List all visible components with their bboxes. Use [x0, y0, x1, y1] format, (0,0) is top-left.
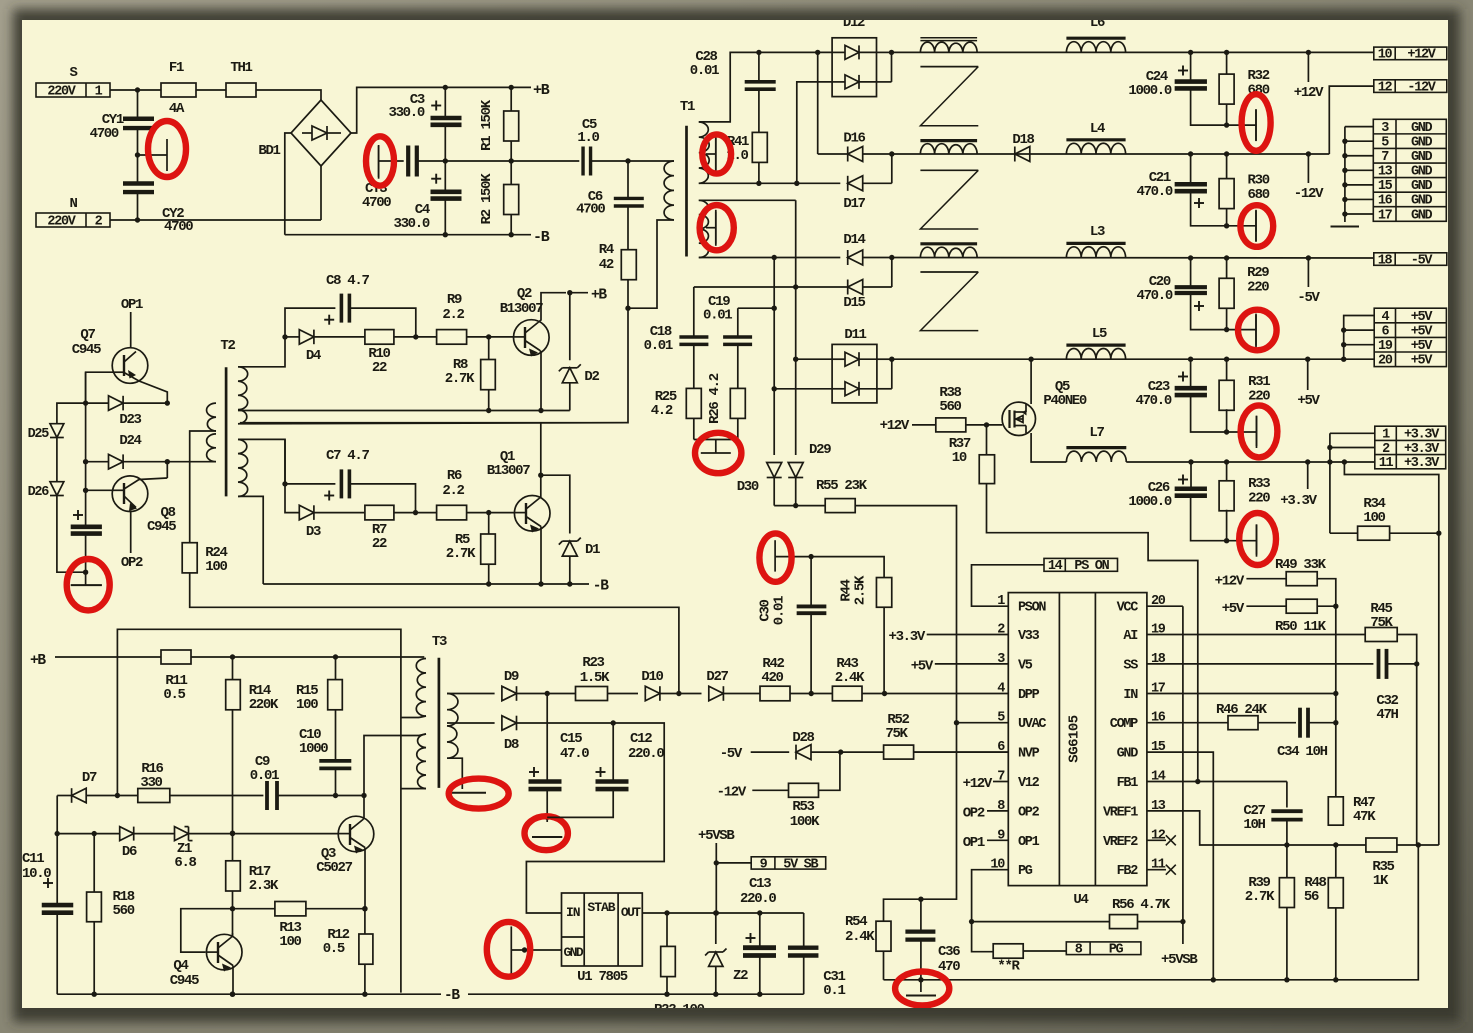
wire +3.3V bus [1330, 432, 1375, 434]
capacitor CY3 4700 [379, 160, 404, 162]
svg-text:100: 100 [205, 559, 227, 575]
svg-text:GND: GND [1411, 208, 1433, 223]
capacitor C34 10H [1298, 708, 1302, 738]
resistor R14 220K [232, 657, 234, 680]
svg-text:T3: T3 [432, 634, 447, 650]
svg-text:+5V: +5V [1297, 393, 1320, 409]
svg-text:1.5K: 1.5K [580, 670, 610, 686]
diode D15 [694, 286, 848, 288]
svg-text:0.1: 0.1 [823, 983, 845, 999]
diode D10 [645, 686, 660, 701]
inductor L4 [1066, 143, 1125, 154]
svg-text:D2: D2 [584, 369, 599, 385]
svg-text:OP1: OP1 [1018, 835, 1040, 850]
diode D7 [57, 795, 71, 797]
svg-text:C36: C36 [938, 944, 960, 960]
svg-text:VREF2: VREF2 [1103, 835, 1138, 850]
resistor R8 2.7K [488, 337, 490, 360]
ground at T1 sec2 tap [706, 227, 716, 229]
junction R49 R50 [1333, 604, 1338, 609]
wire GND pin15 down [1147, 752, 1213, 980]
wire +5VSB stub [715, 843, 717, 913]
svg-text:220.0: 220.0 [628, 746, 664, 762]
svg-text:D17: D17 [843, 196, 865, 212]
wire UVAC pin5 [957, 722, 1009, 724]
svg-text:47K: 47K [1353, 809, 1376, 825]
resistor R16 330 [117, 795, 137, 797]
wire -B rail at Q1 [263, 583, 589, 585]
svg-text:1000: 1000 [299, 741, 328, 757]
svg-text:16: 16 [1378, 194, 1393, 209]
wire -B rail to R2 [445, 234, 531, 236]
svg-text:2.3K: 2.3K [249, 878, 279, 894]
svg-text:0.01: 0.01 [772, 596, 788, 625]
svg-text:OP1: OP1 [963, 835, 985, 851]
svg-text:0.01: 0.01 [644, 338, 673, 354]
wire +12V rail [892, 51, 1374, 53]
red circle R30 ground [1240, 205, 1273, 247]
svg-text:2: 2 [1382, 442, 1390, 457]
junction C30 top [808, 554, 813, 559]
wire T1 sec2 bottom / D14 row [699, 257, 841, 259]
svg-text:1000.0: 1000.0 [1128, 83, 1172, 99]
wire OUT row [642, 912, 803, 914]
ground at R29 [1227, 329, 1256, 331]
svg-text:56: 56 [1304, 889, 1319, 905]
ground bar GND bus [1331, 226, 1360, 228]
svg-text:+5V: +5V [1222, 601, 1245, 617]
svg-text:18: 18 [1378, 253, 1393, 268]
svg-text:D14: D14 [843, 232, 865, 248]
resistor R23 1.5K [576, 687, 608, 701]
diode D2 [569, 293, 571, 361]
T2 right winding upper [238, 367, 248, 424]
coupled choke winding -5V [920, 247, 977, 257]
T2 left winding lower [207, 434, 216, 462]
wire T1 sec1 bottom / D17 row [699, 182, 841, 184]
svg-text:47.0: 47.0 [560, 746, 589, 762]
red circle R33 ground [1239, 513, 1276, 565]
capacitor C18 0.01 [679, 335, 708, 339]
svg-text:2.7K: 2.7K [445, 371, 475, 387]
svg-text:D8: D8 [504, 737, 519, 753]
svg-text:SG6105: SG6105 [1067, 715, 1083, 763]
capacitor C20 470.0 [1190, 258, 1192, 287]
svg-text:-12V: -12V [1294, 186, 1324, 202]
resistor R25 4.2 [686, 388, 701, 418]
svg-text:OP2: OP2 [963, 806, 985, 822]
U4 pin 11 no-connect [1147, 869, 1166, 871]
resistor R1 150K [510, 87, 512, 111]
diode D30 [767, 463, 782, 478]
svg-text:V5: V5 [1018, 658, 1033, 673]
svg-text:OUT: OUT [621, 905, 641, 920]
svg-text:R55 23K: R55 23K [816, 478, 868, 494]
svg-text:GND: GND [1411, 165, 1433, 180]
svg-text:L4: L4 [1090, 121, 1105, 137]
wire D7 to C11 node [56, 796, 58, 834]
resistor R35 1K [1366, 838, 1397, 852]
svg-text:VREF1: VREF1 [1103, 805, 1138, 820]
svg-text:13: 13 [1378, 165, 1393, 180]
svg-text:GND: GND [1411, 194, 1433, 209]
capacitor C3 330.0 [444, 87, 446, 118]
svg-text:COMP: COMP [1110, 717, 1138, 732]
junction Q5 drain [1028, 357, 1033, 362]
svg-text:-5V: -5V [1411, 253, 1434, 268]
T2 right winding lower [238, 439, 248, 496]
svg-text:420: 420 [761, 670, 783, 686]
capacitor C9 0.01 [265, 781, 269, 810]
inductor L3 [1066, 247, 1125, 258]
wire T1 sec2 top lead [699, 199, 796, 201]
resistor R22 100 [666, 913, 668, 946]
svg-text:220: 220 [1248, 389, 1270, 405]
svg-text:**R: **R [997, 959, 1020, 975]
junction R1/R2 [509, 158, 514, 163]
inductor L7 [1066, 451, 1126, 462]
resistor R13 100 [233, 908, 275, 910]
svg-text:22: 22 [372, 360, 387, 376]
svg-text:D1: D1 [585, 542, 600, 558]
svg-text:2.5K: 2.5K [853, 575, 869, 605]
junction cap bottom [83, 570, 88, 575]
red circle C15 ground [525, 816, 568, 850]
junction CY1 top [135, 87, 140, 92]
wire +B rail to R1 [445, 86, 531, 88]
svg-text:D16: D16 [843, 131, 865, 147]
connector GND block [1373, 119, 1446, 221]
wire +B rail to T3 [55, 656, 161, 658]
junction R33 bottom [1224, 538, 1229, 543]
svg-text:STAB: STAB [587, 900, 615, 915]
resistor R4 42 [621, 250, 636, 280]
svg-text:R54: R54 [845, 914, 867, 930]
transformer T1 primary winding [664, 161, 674, 220]
svg-text:DPP: DPP [1018, 688, 1040, 703]
svg-text:4700: 4700 [164, 219, 193, 235]
red circle R29 ground [1238, 310, 1277, 351]
junction feedback D10 D27 [676, 691, 681, 696]
wire T1 primary return [628, 220, 674, 308]
transformer T1 core [685, 126, 688, 257]
capacitor C12 220.0 [612, 723, 614, 782]
junction C10 bottom [333, 793, 338, 798]
wire T1 sec1 top to C28 rail [699, 52, 832, 122]
wire sense line A x=774 [773, 258, 775, 456]
svg-text:R4: R4 [599, 242, 614, 258]
svg-text:-B: -B [593, 579, 609, 595]
capacitor CY2 4700 [137, 155, 139, 184]
svg-text:+12V: +12V [1407, 48, 1436, 63]
capacitor C19 0.01 [737, 308, 739, 337]
ground at R31 [1227, 431, 1257, 433]
svg-text:BD1: BD1 [258, 143, 280, 159]
svg-text:2: 2 [95, 214, 103, 229]
wire bottom -B rail left [57, 993, 441, 995]
core symbol Z2 mid [920, 169, 978, 171]
connector 14 PS ON [1044, 558, 1118, 571]
ground at C30 [774, 540, 776, 571]
wire +5V bus [1344, 316, 1375, 360]
wire N to bridge [110, 219, 321, 221]
wire D11 outputs join [877, 358, 892, 360]
resistor R54 2.4K [876, 921, 891, 951]
wire T2 lower top to D3 node [238, 439, 285, 484]
thermistor TH1 [226, 83, 256, 97]
svg-text:OP2: OP2 [121, 555, 143, 571]
wire Q3 emitter [364, 848, 366, 909]
svg-text:5: 5 [1381, 135, 1389, 150]
wire R4 node down to T2 line [240, 308, 628, 423]
svg-text:T1: T1 [680, 99, 695, 115]
svg-text:470: 470 [938, 959, 960, 975]
resistor R5 2.7K [488, 513, 490, 534]
svg-text:C8 4.7: C8 4.7 [326, 273, 370, 289]
svg-text:S: S [69, 65, 77, 81]
wire -B rail top-left [285, 234, 446, 236]
wire R14 to base row [232, 710, 234, 861]
svg-text:GND: GND [1411, 179, 1433, 194]
capacitor C26 1000.0 [1190, 462, 1192, 488]
svg-text:4700: 4700 [576, 202, 605, 218]
svg-text:8: 8 [1075, 943, 1083, 958]
resistor R31 220 [1226, 359, 1228, 381]
connector +3.3V block [1375, 426, 1446, 469]
T3 winding2 top to Q3 [364, 734, 426, 796]
svg-text:+5V: +5V [911, 659, 934, 675]
svg-text:C11: C11 [22, 851, 44, 867]
capacitor C32 47H [1147, 663, 1374, 665]
junction C7 R7 [413, 510, 418, 515]
resistor R18 560 [93, 834, 95, 892]
red circle C30 ground [759, 533, 791, 581]
ground at R33 [1227, 540, 1257, 542]
resistor R24 100 [182, 543, 197, 573]
svg-text:C34 10H: C34 10H [1277, 744, 1328, 760]
svg-text:T2: T2 [220, 338, 235, 354]
svg-text:GND: GND [1411, 135, 1433, 150]
transistor Q4 C945 [206, 934, 242, 970]
svg-text:9: 9 [760, 857, 768, 872]
junction -5V rectifier [889, 255, 894, 260]
wire R24 to D10 D27 node [190, 573, 679, 694]
svg-text:5V SB: 5V SB [783, 857, 818, 872]
wire bridge bottom to N rail [320, 166, 322, 220]
bridge rectifier BD1 [291, 100, 351, 166]
regulator U1 7805 [562, 893, 643, 966]
junction R30 bottom [1224, 223, 1229, 228]
T3 winding2 bottom link [401, 788, 419, 790]
svg-text:+12V: +12V [1215, 574, 1245, 590]
resistor R15 100 [335, 657, 337, 680]
svg-text:220V: 220V [47, 214, 76, 229]
wire bridge left to -B rail [285, 133, 291, 235]
capacitor C28 [758, 52, 760, 82]
svg-text:L7: L7 [1089, 425, 1104, 441]
resistor R10 22 [365, 330, 394, 345]
junction C6 top [625, 158, 630, 163]
red circle T1 tap2 ground [700, 205, 734, 250]
wire D16 branch vertical [817, 52, 819, 154]
svg-text:D30: D30 [737, 479, 759, 495]
svg-text:+5V: +5V [1411, 339, 1434, 354]
junction C27 bottom [1284, 842, 1289, 847]
coupled choke winding +12V [920, 42, 977, 52]
wire Q8 collector [166, 462, 168, 478]
wire Q8 base [86, 489, 113, 491]
IC U4 SG6105 body [1008, 593, 1147, 886]
svg-text:P40NE0: P40NE0 [1043, 393, 1087, 409]
ground at C36 [906, 995, 936, 997]
svg-text:GND: GND [1411, 150, 1433, 165]
junction C15 C12 gnd [545, 815, 550, 820]
svg-text:L5: L5 [1092, 326, 1107, 342]
svg-text:F1: F1 [169, 60, 184, 76]
svg-text:15: 15 [1378, 179, 1393, 194]
junction R9 R8 [486, 334, 491, 339]
svg-text:2.7K: 2.7K [1245, 889, 1275, 905]
capacitor C24 1000.0 [1190, 52, 1192, 79]
wire D8 to 7805 IN [526, 723, 664, 913]
svg-text:C5027: C5027 [316, 860, 352, 876]
wire T2 upper to D4 node [238, 337, 285, 367]
wire D12 lower input [797, 82, 832, 183]
junction R4 bottom [625, 306, 630, 311]
svg-text:Q4: Q4 [173, 958, 188, 974]
svg-text:0.5: 0.5 [163, 687, 185, 703]
junction D16 branch [815, 50, 820, 55]
wire feedback loop to D10 node [117, 629, 401, 992]
wire PG pin10 [972, 870, 1009, 952]
capacitor C23 470.0 [1190, 359, 1192, 387]
resistor R6 2.2 [437, 505, 467, 520]
wire S to F1 [110, 89, 161, 91]
svg-text:VCC: VCC [1117, 601, 1139, 616]
svg-text:0.01: 0.01 [250, 768, 279, 784]
junction -12V rectifier [889, 151, 894, 156]
svg-text:C945: C945 [147, 519, 176, 535]
connector 8 PG [1023, 950, 1066, 952]
wire Q7 base [86, 372, 113, 403]
diode D24 [86, 461, 109, 463]
svg-text:4A: 4A [169, 101, 185, 117]
wire D29 D30 join [774, 505, 825, 507]
svg-text:AI: AI [1123, 629, 1138, 644]
svg-text:Z2: Z2 [733, 968, 748, 984]
diode D14 [848, 250, 863, 265]
junction mid rail [443, 158, 448, 163]
diode D1 [541, 475, 570, 533]
wire C19 top link [738, 307, 774, 309]
resistor R43 2.4K [832, 686, 862, 701]
svg-text:220.0: 220.0 [740, 891, 776, 907]
diode D16 [818, 153, 848, 155]
junction D28 R53 [838, 749, 843, 754]
svg-text:Q2: Q2 [517, 286, 532, 302]
junction R29 bottom [1224, 327, 1229, 332]
resistor R55 23K [825, 499, 855, 513]
svg-text:U4: U4 [1073, 892, 1088, 908]
svg-text:1K: 1K [1373, 873, 1389, 889]
resistor R41 1.0 [752, 132, 767, 162]
svg-text:6.8: 6.8 [174, 855, 196, 871]
svg-text:75K: 75K [885, 726, 908, 742]
svg-text:D6: D6 [122, 844, 137, 860]
wire DPP pin4 [885, 693, 1009, 695]
svg-text:+12V: +12V [880, 418, 910, 434]
wire COMP column x=1335.8 [1335, 606, 1337, 797]
capacitor C4 330.0 [431, 190, 462, 195]
svg-text:R6: R6 [447, 468, 462, 484]
svg-text:4700: 4700 [90, 126, 119, 142]
diode D3 [285, 484, 299, 513]
svg-text:GND: GND [1117, 747, 1139, 762]
junction R31 bottom [1224, 429, 1229, 434]
svg-text:7: 7 [1381, 150, 1389, 165]
svg-text:+B: +B [591, 288, 607, 304]
wire -12V rail [892, 153, 1330, 155]
wire F1 to TH1 [196, 89, 226, 91]
core symbol Z1 top [920, 66, 978, 68]
svg-text:100: 100 [296, 697, 318, 713]
transformer T1 secondary winding 1 [699, 122, 709, 183]
rectifier block D11 [832, 344, 877, 403]
resistor R53 100K [789, 783, 819, 797]
resistor R45 75K [1147, 634, 1365, 636]
wire VREF1 pin13 row [1147, 811, 1366, 845]
ground at R32 [1227, 124, 1256, 126]
svg-text:680: 680 [1248, 187, 1270, 203]
svg-text:3: 3 [1381, 121, 1389, 136]
svg-text:FB2: FB2 [1117, 864, 1139, 879]
svg-text:1: 1 [95, 84, 103, 99]
svg-text:75K: 75K [1370, 615, 1393, 631]
resistor R33 220 [1226, 462, 1228, 482]
resistor R9 2.2 [437, 330, 467, 345]
svg-text:C7 4.7: C7 4.7 [326, 448, 370, 464]
ground at T3 [446, 792, 486, 794]
rectifier block D12 [832, 38, 876, 97]
wire bottom -B rail right [468, 993, 804, 995]
resistor R29 220 [1226, 258, 1228, 279]
connector N 220V pin2 [36, 213, 110, 227]
capacitor C31 0.1 [803, 913, 805, 948]
wire OP1 to Q7 collector [130, 312, 132, 348]
wire C32 column down [1416, 664, 1418, 845]
svg-text:PG: PG [1018, 864, 1033, 879]
red circle R32 ground [1242, 94, 1271, 151]
red circle Q7 cap ground [67, 559, 110, 610]
transformer T2 core [225, 367, 228, 496]
wire -5V rail [892, 257, 1374, 260]
resistor R42 420 [760, 686, 790, 701]
capacitor CY1 4700 [137, 90, 139, 119]
svg-text:V12: V12 [1018, 776, 1040, 791]
svg-text:U1 7805: U1 7805 [577, 969, 628, 985]
svg-text:OP1: OP1 [121, 297, 143, 313]
red circle C36 ground [895, 972, 949, 1006]
transistor Q1 B13007 [514, 496, 550, 532]
svg-text:470.0: 470.0 [1135, 393, 1171, 409]
svg-text:SS: SS [1123, 658, 1138, 673]
svg-text:220V: 220V [47, 84, 76, 99]
wire base row to Q3 [230, 831, 235, 836]
svg-text:D18: D18 [1012, 132, 1034, 148]
resistor R52 75K [884, 745, 914, 759]
junction C11 top [55, 831, 60, 836]
capacitor C7 [284, 439, 286, 484]
